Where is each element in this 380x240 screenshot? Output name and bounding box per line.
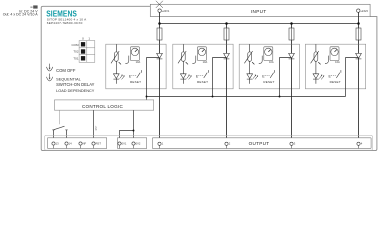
svg-text:RST: RST bbox=[96, 125, 98, 130]
svg-text:14: 14 bbox=[69, 142, 72, 146]
svg-text:RST: RST bbox=[96, 142, 102, 146]
svg-text:RESET: RESET bbox=[330, 80, 341, 84]
svg-text:13: 13 bbox=[56, 142, 59, 146]
svg-text:COM OFF: COM OFF bbox=[56, 68, 76, 73]
svg-text:0V1: 0V1 bbox=[122, 142, 127, 146]
svg-text:0V2: 0V2 bbox=[136, 142, 141, 146]
svg-text:SWITCH-ON DELAY: SWITCH-ON DELAY bbox=[56, 82, 95, 87]
svg-text:SEQUENTIAL: SEQUENTIAL bbox=[56, 77, 81, 82]
svg-text:RESET: RESET bbox=[130, 80, 141, 84]
svg-text:NF: NF bbox=[83, 142, 87, 146]
svg-text:Out: 4 x DC 24 V/10 A: Out: 4 x DC 24 V/10 A bbox=[3, 13, 39, 17]
svg-text:OUTPUT: OUTPUT bbox=[249, 141, 270, 146]
svg-text:6EP4437-7EB00-3CX0: 6EP4437-7EB00-3CX0 bbox=[47, 21, 83, 25]
svg-text:T02: T02 bbox=[73, 50, 79, 54]
svg-text:RESET: RESET bbox=[197, 80, 208, 84]
svg-text:+24V1: +24V1 bbox=[162, 9, 170, 13]
svg-text:T01: T01 bbox=[73, 57, 79, 61]
svg-text:RESET: RESET bbox=[263, 80, 274, 84]
svg-text:+24V2: +24V2 bbox=[360, 9, 368, 13]
svg-text:10A: 10A bbox=[269, 60, 274, 64]
svg-text:COM: COM bbox=[72, 43, 80, 47]
svg-text:10A: 10A bbox=[203, 60, 208, 64]
svg-text:10A: 10A bbox=[136, 60, 141, 64]
svg-text:10A: 10A bbox=[335, 60, 340, 64]
svg-text:LOAD DEPENDENCY: LOAD DEPENDENCY bbox=[56, 89, 95, 93]
svg-text:CONTROL LOGIC: CONTROL LOGIC bbox=[82, 104, 124, 109]
svg-text:INPUT: INPUT bbox=[251, 9, 267, 14]
